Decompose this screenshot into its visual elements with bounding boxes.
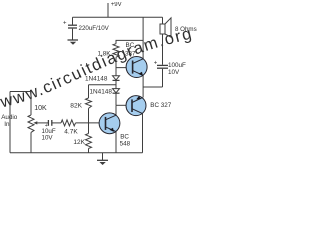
wire 12K top lead bbox=[88, 123, 90, 134]
wire speaker bottom lead bbox=[162, 34, 164, 65]
wire BC337 collector to rail bbox=[142, 17, 144, 59]
wire ground stub bbox=[102, 153, 104, 160]
wire D2 to BC327 base branch bbox=[115, 93, 117, 105]
svg-text:In: In bbox=[4, 121, 10, 128]
svg-text:4.7K: 4.7K bbox=[64, 128, 78, 135]
wire audio left bbox=[9, 92, 11, 153]
wire speaker top lead bbox=[162, 17, 164, 24]
svg-text:+: + bbox=[63, 21, 67, 27]
resistor R 82K bbox=[86, 98, 92, 108]
speaker LS1 8 Ohms bbox=[160, 18, 171, 37]
wire ground bus bottom bbox=[10, 152, 143, 154]
diode D1 1N4148 bbox=[113, 76, 120, 81]
wire 10uF to 4.7K bbox=[52, 122, 61, 124]
transistor Q1 BC337 (NPN) bbox=[126, 57, 147, 78]
wire BC327 base branch bbox=[116, 104, 132, 106]
capacitor C 100uF/10V bbox=[157, 65, 168, 68]
wire 82K top branch bbox=[89, 84, 117, 86]
wire +9V rail bbox=[73, 16, 163, 18]
svg-text:12K: 12K bbox=[73, 139, 85, 146]
svg-text:548: 548 bbox=[120, 140, 131, 147]
svg-text:BC: BC bbox=[126, 42, 135, 49]
wire BC548 collector bbox=[115, 105, 117, 115]
svg-text:+: + bbox=[154, 60, 158, 66]
svg-text:8 Ohms: 8 Ohms bbox=[175, 26, 197, 33]
wire 4.7K to BC548 base bbox=[76, 122, 106, 124]
resistor R 1.8K bbox=[113, 44, 119, 58]
wire D1 to D2 bbox=[115, 80, 117, 88]
wire 82K top lead bbox=[88, 85, 90, 98]
svg-text:+9V: +9V bbox=[111, 2, 122, 8]
svg-text:1N4148: 1N4148 bbox=[85, 76, 108, 83]
svg-text:1N4148: 1N4148 bbox=[90, 89, 113, 96]
capacitor C 220uF/10V bbox=[68, 25, 77, 28]
wire BC548 emitter to ground bus bbox=[115, 132, 117, 153]
svg-text:10K: 10K bbox=[34, 105, 47, 112]
svg-text:10V: 10V bbox=[42, 134, 54, 141]
wire 220uF bottom lead bbox=[72, 29, 74, 40]
wire 100uF bottom lead bbox=[162, 69, 164, 87]
wire audio top bbox=[10, 92, 31, 116]
wire 1.8K bottom to D1 bbox=[115, 57, 117, 76]
svg-text:10V: 10V bbox=[168, 69, 180, 76]
wire BC327 collector to ground bus bbox=[142, 114, 144, 153]
transistor Q3 BC548 (NPN) bbox=[99, 113, 120, 134]
wire wiper to 10uF bbox=[36, 122, 48, 124]
svg-text:82K: 82K bbox=[70, 103, 82, 110]
diode D2 1N4148 bbox=[113, 89, 120, 94]
wire 82K bottom lead bbox=[88, 108, 90, 123]
wire 1.8K top branch bbox=[116, 40, 143, 43]
wire BC337 base branch bbox=[116, 67, 133, 69]
svg-text:1.8K: 1.8K bbox=[98, 51, 112, 58]
ground (bottom) bbox=[97, 160, 108, 165]
wire 220uF top lead bbox=[72, 17, 74, 24]
wire BC337 emitter to BC327 emitter bbox=[142, 75, 144, 97]
resistor R 12K bbox=[86, 134, 92, 149]
svg-text:BC 327: BC 327 bbox=[150, 102, 172, 109]
svg-text:337: 337 bbox=[125, 50, 136, 57]
svg-text:BC: BC bbox=[120, 133, 129, 140]
ground (under 220uF) bbox=[68, 40, 79, 45]
wire +9V lead bbox=[107, 3, 109, 17]
potentiometer wiper arrow bbox=[33, 121, 37, 124]
capacitor C 10uF/10V bbox=[48, 120, 51, 126]
potentiometer VR 10K bbox=[28, 115, 34, 132]
svg-text:220uF/10V: 220uF/10V bbox=[79, 25, 110, 32]
resistor R 4.7K bbox=[61, 120, 76, 126]
wire 12K bottom lead bbox=[88, 149, 90, 153]
wire pot bottom lead bbox=[30, 132, 32, 152]
wire output branch bbox=[143, 86, 162, 88]
transistor Q2 BC327 (PNP) bbox=[126, 96, 146, 116]
